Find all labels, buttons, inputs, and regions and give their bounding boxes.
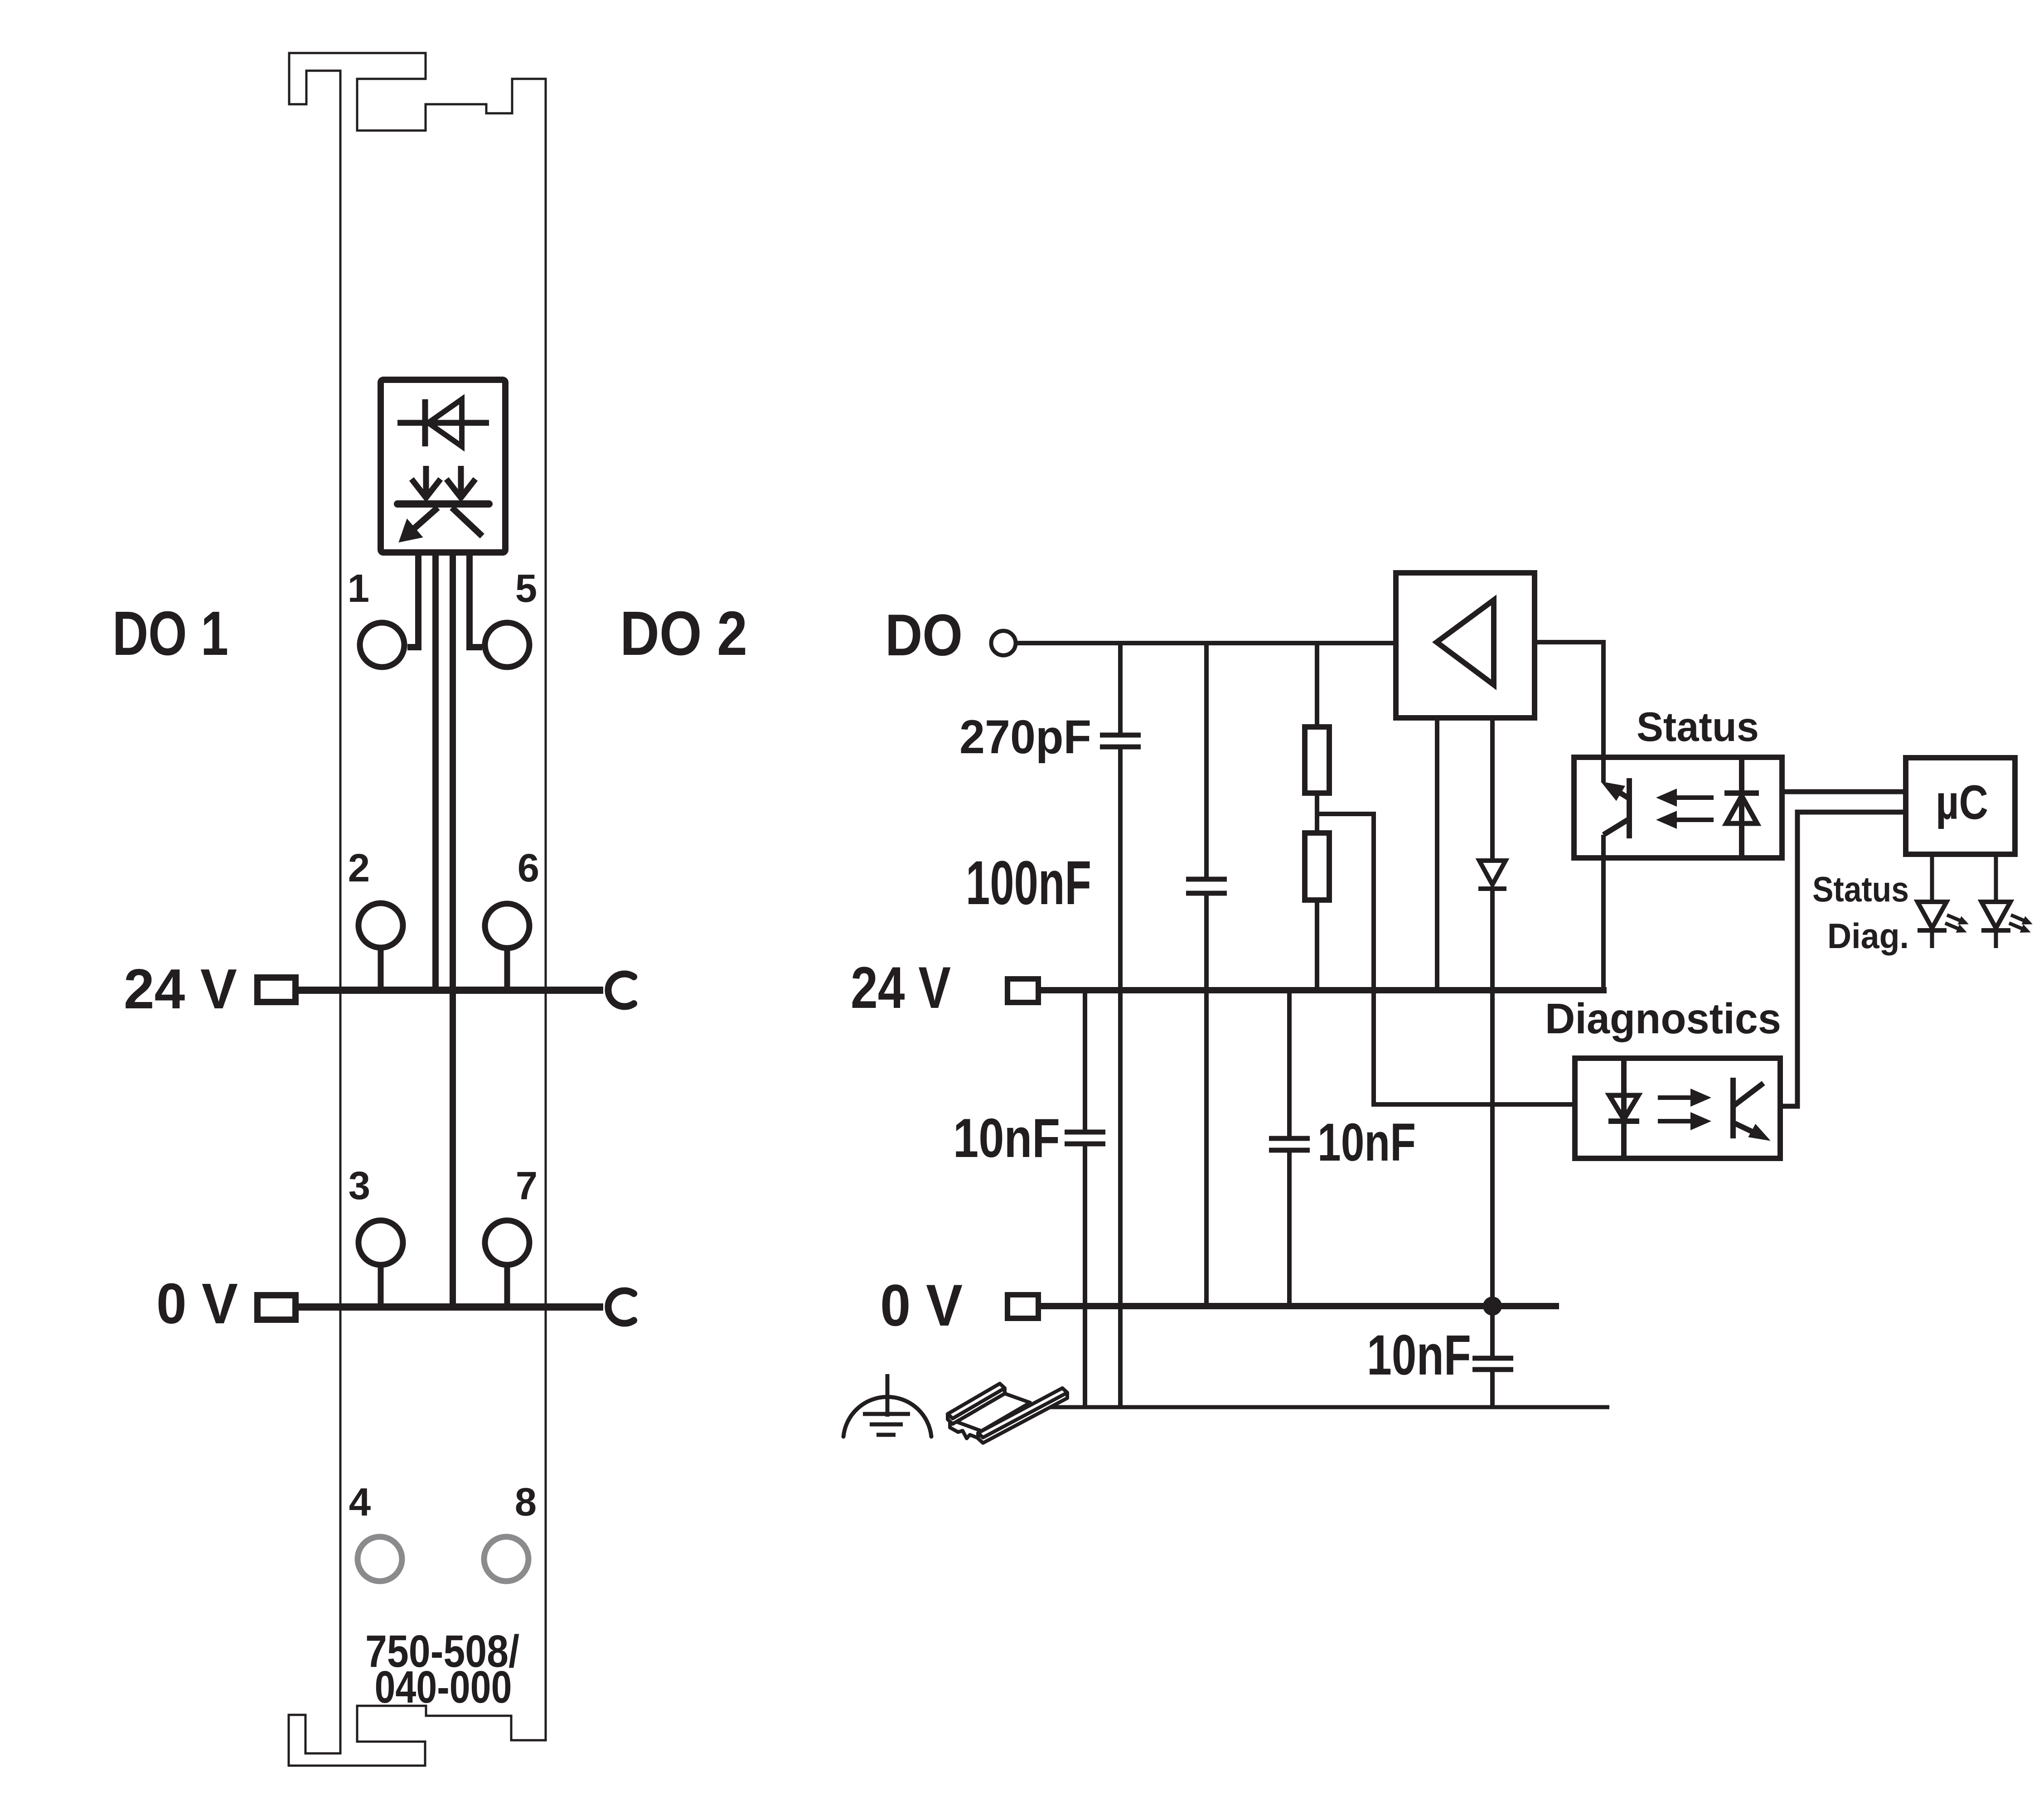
svg-text:10nF: 10nF bbox=[1317, 1113, 1416, 1172]
svg-text:8: 8 bbox=[515, 1480, 537, 1524]
svg-text:1: 1 bbox=[348, 566, 369, 610]
svg-text:Diag.: Diag. bbox=[1827, 916, 1909, 956]
svg-text:DO 1: DO 1 bbox=[112, 599, 228, 668]
svg-text:0 V: 0 V bbox=[156, 1272, 238, 1336]
svg-text:2: 2 bbox=[348, 846, 370, 890]
svg-text:Status: Status bbox=[1812, 869, 1909, 909]
svg-text:DO: DO bbox=[885, 602, 963, 668]
svg-text:24 V: 24 V bbox=[124, 958, 237, 1021]
svg-text:µC: µC bbox=[1936, 775, 1988, 829]
svg-text:0 V: 0 V bbox=[880, 1272, 963, 1338]
svg-text:5: 5 bbox=[515, 566, 537, 610]
svg-text:10nF: 10nF bbox=[1367, 1324, 1471, 1387]
svg-text:Diagnostics: Diagnostics bbox=[1545, 995, 1781, 1043]
svg-text:100nF: 100nF bbox=[966, 848, 1091, 918]
svg-text:24 V: 24 V bbox=[851, 954, 951, 1021]
svg-text:3: 3 bbox=[349, 1164, 370, 1208]
svg-text:Status: Status bbox=[1637, 704, 1759, 750]
svg-text:4: 4 bbox=[349, 1480, 371, 1524]
svg-text:10nF: 10nF bbox=[953, 1107, 1060, 1169]
svg-text:270pF: 270pF bbox=[959, 711, 1091, 764]
svg-text:DO 2: DO 2 bbox=[620, 599, 747, 668]
svg-text:040-000: 040-000 bbox=[375, 1662, 512, 1713]
svg-text:7: 7 bbox=[516, 1164, 538, 1208]
svg-text:6: 6 bbox=[518, 846, 539, 890]
